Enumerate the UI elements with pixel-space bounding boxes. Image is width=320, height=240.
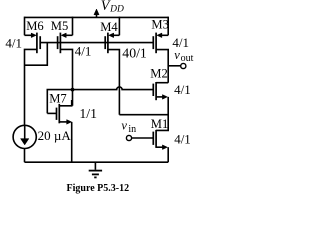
wire current source to ground rail bbox=[24, 149, 26, 163]
node VDD label bbox=[101, 0, 124, 15]
wire junction to M2 gate with hop over M4 drain bbox=[73, 87, 153, 90]
wire M3 source feed from rail bbox=[167, 17, 169, 36]
svg-text:M7: M7 bbox=[49, 91, 66, 105]
svg-text:Figure P5.3-12: Figure P5.3-12 bbox=[67, 183, 130, 194]
wire M2 source down through cascode node to M1 drain bbox=[156, 97, 168, 130]
transistor M3 bbox=[153, 33, 168, 54]
node vin label bbox=[121, 118, 136, 134]
svg-text:in: in bbox=[128, 124, 136, 135]
svg-text:1/1: 1/1 bbox=[79, 106, 97, 121]
current source I1 20uA bbox=[13, 125, 36, 148]
transistor M7 bbox=[47, 100, 71, 124]
wire common gate bus M6-M5-M4-M3 bbox=[40, 42, 152, 44]
svg-text:M6: M6 bbox=[26, 19, 44, 33]
transistor M2 bbox=[153, 82, 168, 100]
power symbol VDD arrow bbox=[96, 13, 98, 18]
wire M5 source feed from rail bbox=[72, 17, 74, 36]
ground symbol bbox=[89, 162, 102, 177]
wire left feed from rail to M6 source bbox=[24, 17, 26, 36]
svg-text:4/1: 4/1 bbox=[174, 82, 191, 97]
svg-text:out: out bbox=[181, 53, 194, 64]
wire ground rail bbox=[25, 161, 169, 163]
wire VDD top rail bbox=[25, 16, 169, 18]
transistor M6 bbox=[25, 33, 41, 54]
wire M3 drain to vout node and down to M2 drain bbox=[156, 50, 168, 83]
wire M7 gate loop to junction bbox=[47, 90, 71, 114]
svg-text:M1: M1 bbox=[151, 117, 169, 131]
wire vout tap bbox=[168, 65, 180, 67]
wire M4 source feed from rail bbox=[118, 17, 120, 36]
wire M6 diode connection drop bbox=[25, 43, 48, 66]
wire M6 drain to left rail bbox=[25, 49, 37, 125]
svg-text:4/1: 4/1 bbox=[174, 132, 191, 147]
transistor M5 bbox=[58, 33, 73, 54]
wire M7 source down to ground rail bbox=[71, 122, 73, 162]
svg-text:4/1: 4/1 bbox=[75, 43, 92, 58]
svg-text:M2: M2 bbox=[150, 67, 168, 81]
svg-text:20 µA: 20 µA bbox=[38, 128, 72, 143]
wire M4 drain down to cascode node bbox=[108, 50, 120, 115]
svg-text:v: v bbox=[174, 48, 180, 62]
svg-text:40/1: 40/1 bbox=[122, 45, 147, 60]
terminal vin open circle bbox=[126, 135, 131, 140]
wire vin lead to M1 gate bbox=[132, 137, 154, 139]
svg-text:M4: M4 bbox=[100, 20, 118, 34]
wire cascode node horizontal to M2 source / M1 drain bbox=[119, 114, 168, 116]
svg-text:4/1: 4/1 bbox=[5, 35, 22, 50]
node vout label bbox=[174, 48, 193, 64]
terminal vout open circle bbox=[181, 63, 186, 68]
svg-text:v: v bbox=[121, 118, 127, 132]
node junction dot M5/M7/M2-gate bbox=[71, 88, 75, 92]
wire M1 source down to ground rail bbox=[167, 147, 169, 162]
transistor M1 bbox=[153, 130, 167, 150]
wire M5 drain down to M7 drain (through junction) bbox=[60, 49, 72, 105]
svg-text:DD: DD bbox=[109, 5, 124, 15]
svg-text:M3: M3 bbox=[151, 18, 169, 32]
svg-text:M5: M5 bbox=[51, 19, 69, 33]
transistor M4 bbox=[105, 33, 119, 54]
